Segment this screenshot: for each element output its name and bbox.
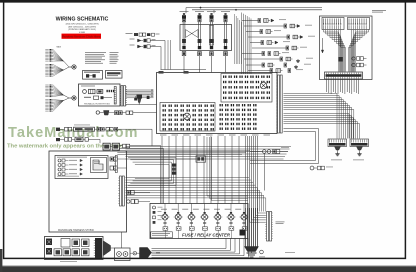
node N1: [130, 252, 140, 255]
harness bottom connector strip: [325, 72, 363, 79]
mid connector pair CP4: [127, 200, 150, 204]
horizontal bundle crossing wires: [126, 147, 292, 160]
relay K3: [187, 204, 196, 227]
connector pair P7: [115, 127, 118, 131]
page bottom scan shadow: [0, 266, 416, 272]
glow plug GP3: [207, 11, 216, 72]
fuse panel label below: [60, 260, 77, 263]
main controller box U1: [157, 71, 278, 134]
stacked connector on loops: [172, 164, 177, 175]
connector pair P5: [97, 127, 104, 131]
svg-text:WIRING SCHEMATIC: WIRING SCHEMATIC: [56, 17, 109, 23]
connector row RB upper left of ECU: [130, 39, 166, 70]
inline component K1: [74, 127, 95, 131]
page top scan edge: [0, 0, 416, 3]
relay K1: [161, 204, 170, 227]
taillight box side comb: [114, 156, 117, 173]
relay K4: [200, 204, 209, 227]
engine sensor row E10: [248, 69, 303, 73]
hydraulic filter connector row: [83, 89, 115, 93]
fuel component row: [250, 147, 289, 154]
long cab harness wires: [117, 151, 250, 155]
labels under ECU box: [160, 134, 270, 137]
connector pair P3: [126, 111, 133, 114]
harness wire bundle down: [327, 79, 359, 94]
svg-text:(PRINTED FEBRUARY 2005): (PRINTED FEBRUARY 2005): [68, 28, 96, 31]
ECU connector grid B outline: [160, 103, 215, 132]
connector fan C1 front harness: [45, 46, 63, 62]
connector pair P2: [115, 111, 123, 115]
option box B1 traction lock: [83, 71, 103, 80]
drop connector D1 on J1 wires: [134, 96, 137, 101]
ECU grid A keying plug: [260, 82, 267, 89]
junction strip label: [276, 221, 285, 224]
wires row R3 right: [119, 145, 163, 148]
fuse row: [163, 227, 247, 239]
red preview banner: [62, 34, 102, 39]
chassis connector comb CC1: [328, 139, 347, 152]
labels under chassis combs: [331, 159, 364, 162]
riser wires right of glow box: [235, 14, 242, 64]
fuse relay inner left column: [153, 206, 163, 224]
hydraulic filter sensor row: [84, 96, 112, 106]
glow plug GP1: [180, 11, 189, 72]
relay K6: [227, 204, 236, 227]
wire drop from fuel row: [263, 153, 265, 190]
glow plug assembly box: [180, 25, 232, 51]
connector fan C3: [45, 85, 63, 98]
component row RA above ECU: [126, 33, 160, 36]
label top right corner: [372, 9, 386, 12]
battery cable junction strip: [265, 212, 273, 242]
wire from relay box up: [121, 232, 123, 248]
sensor row bundle riser: [242, 13, 252, 75]
wire row R1 to junction: [95, 128, 153, 130]
engine sensor row E5: [250, 41, 290, 45]
chassis connector comb CC2: [350, 139, 369, 152]
glow plug GP2: [195, 11, 204, 72]
wire nest lower group: [284, 114, 360, 139]
connector pair P9: [123, 144, 130, 148]
wire comb below ECU: [162, 136, 239, 204]
taillight box: [55, 156, 108, 179]
wire drops from rows into lower bundle: [100, 129, 164, 203]
relay K7: [240, 204, 249, 227]
switch row R2: [56, 137, 100, 141]
starter relay box: [115, 248, 131, 261]
ground node ring: [259, 250, 265, 257]
harness inner plug: [321, 38, 342, 62]
svg-text:(S/N 528511001 - 528514999): (S/N 528511001 - 528514999): [68, 26, 96, 28]
watermark TakeManual.com: [8, 125, 139, 141]
legend note text block: [85, 52, 119, 63]
connector pair P4: [65, 127, 72, 131]
page bottom-left scan shadow: [0, 249, 2, 272]
nested routing loops: [128, 158, 176, 186]
ground G1: [337, 152, 339, 154]
mainframe harness outer box: [49, 151, 127, 232]
title subtext serial numbers: [65, 24, 98, 34]
ECU right edge connector strip: [276, 75, 282, 133]
vertical connector strip J1: [120, 86, 127, 107]
ECU connector grid A pins: [223, 76, 270, 100]
engine sensor row E7: [242, 52, 289, 56]
watermark tagline: [7, 143, 124, 149]
fuse relay note box: [151, 232, 173, 238]
connector C3/C4 junction plug: [64, 95, 77, 101]
sender unit S1: [96, 111, 109, 116]
main chassis ground G3: [247, 253, 257, 257]
taillight lamps: [58, 159, 83, 176]
main ground bundle fan: [245, 208, 259, 253]
wire turns into junction strip: [250, 208, 266, 222]
fan out of fuse panel: [104, 241, 115, 256]
solenoid block: [240, 230, 246, 236]
engine harness label bottom: [156, 252, 160, 255]
svg-text:FUSE / RELAY CENTER: FUSE / RELAY CENTER: [182, 233, 231, 238]
fuse panel relay squares row 2: [54, 249, 89, 256]
engine sensor row E4: [248, 35, 315, 39]
taillight option sub-box: [91, 158, 107, 173]
engine sensor row E3: [246, 30, 281, 34]
large connector pair P8: [103, 143, 119, 150]
crossover wires inside glow plug box: [186, 30, 199, 38]
glow plug GP4: [221, 11, 230, 72]
pin marks at ECU left edge: [151, 90, 153, 97]
wire row to ECU: [109, 112, 157, 114]
ECU connector grid B pins: [163, 105, 214, 131]
cab vertical connector strip J2: [118, 176, 124, 206]
connector row RC upper left of ECU: [130, 45, 162, 70]
horn components: [310, 166, 333, 170]
ECU connector grid C pins: [220, 104, 257, 130]
wire nest from ECU to chassis connectors: [284, 94, 354, 139]
engine sensor row E8: [244, 57, 313, 63]
connector fan C2: [45, 64, 63, 77]
connector pair P6: [106, 127, 113, 131]
long drops to bottom bundle: [246, 136, 258, 247]
injector cylinder: [209, 26, 213, 46]
mid vertical bundle turns: [207, 137, 248, 201]
mid connector pair CP3: [127, 191, 150, 195]
cab connector pair CP1: [110, 157, 127, 161]
fuse panel breaker CB2: [46, 248, 52, 255]
engine harness connector box: [320, 16, 373, 80]
remote connector box RB1: [177, 156, 206, 162]
ground G2: [359, 152, 361, 154]
drop connector D2 on J1 wires: [147, 95, 150, 100]
hydraulic filter box: [79, 84, 121, 106]
bottom right label: [285, 251, 295, 254]
hydraulic filter box connector strip: [114, 87, 116, 105]
wire rail into ECU top: [161, 40, 207, 70]
ground lug near filter box: [137, 95, 143, 105]
harness header H1: [322, 18, 344, 30]
ECU connector grid A outline: [221, 74, 272, 103]
harness header H2: [348, 18, 370, 30]
fuse panel right connector comb: [94, 238, 102, 258]
engine sensor row E6: [252, 46, 307, 50]
fuse relay center box: [150, 204, 248, 239]
bottom wire bundle: [152, 239, 249, 258]
bottom harness fan: [140, 248, 152, 259]
fuse relay labels top: [161, 208, 241, 211]
top feed wires: [186, 7, 322, 13]
fuse panel breaker CB1: [46, 239, 52, 246]
harness aux connectors: [352, 57, 367, 67]
svg-text:MAINFRAME HARNESS STX500: MAINFRAME HARNESS STX500: [58, 229, 95, 232]
return wire loop right side: [250, 129, 319, 164]
switch row R1 labels: [74, 124, 90, 127]
ECU grid B keying plug: [184, 113, 191, 120]
relay K5: [213, 204, 222, 227]
svg-text:4200 (S/N 528411001 - 52841499: 4200 (S/N 528411001 - 528414999): [65, 24, 98, 26]
taillight box footnote: [57, 175, 79, 178]
engine sensor row E2: [244, 24, 312, 28]
fuse panel relay squares row 1: [61, 239, 89, 248]
cab connector pair CP2: [110, 166, 127, 170]
svg-text:Preview Version Click Here: Preview Version Click Here: [62, 35, 101, 39]
wires from strip J1 to main ECU box: [126, 90, 157, 105]
connector fan C4: [45, 99, 63, 112]
svg-text:HYDRAULIC FILTER FITTING: HYDRAULIC FILTER FITTING: [84, 103, 110, 106]
svg-text:MAIN: MAIN: [57, 46, 62, 49]
harness nested fan wires: [324, 30, 369, 72]
horizontal bundle mid-left: [126, 178, 266, 212]
engine sensor row E1: [242, 19, 286, 23]
mainframe fuse panel box: [45, 237, 104, 260]
title WIRING SCHEMATIC: [56, 17, 109, 23]
engine sensor row E9: [246, 63, 311, 69]
connector C1/C2 junction plug: [64, 61, 77, 70]
option box B2 label plate: [106, 71, 123, 79]
relay K2: [174, 204, 183, 227]
switch SW1: [56, 128, 65, 131]
